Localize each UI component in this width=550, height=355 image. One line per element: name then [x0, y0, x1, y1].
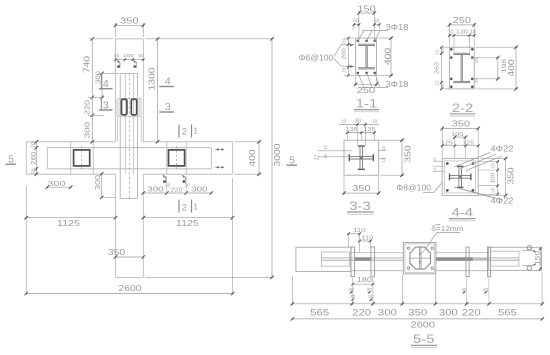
section marker 3 (right)	[159, 101, 174, 113]
section 5-5: title 5-5	[411, 334, 437, 348]
dim 350 (column width, top)	[116, 23, 144, 38]
section 4-4: title 4-4	[449, 207, 476, 220]
svg-text:125: 125	[441, 140, 453, 146]
svg-text:5-5: 5-5	[413, 334, 435, 346]
section 1-1: label phi6@100 with leader	[299, 44, 355, 68]
svg-text:350: 350	[452, 119, 471, 129]
svg-text:50: 50	[114, 53, 120, 59]
svg-text:20: 20	[165, 183, 171, 188]
svg-text:300: 300	[48, 179, 66, 188]
section marker 4 (right)	[159, 75, 174, 87]
svg-text:350: 350	[506, 167, 515, 185]
section marker 3 (left)	[99, 97, 113, 112]
svg-text:260: 260	[434, 62, 440, 74]
section 5-5: plate thickness dims 20 left	[349, 287, 374, 301]
svg-text:350: 350	[408, 307, 427, 317]
section 1-1: dim 400 right	[378, 38, 393, 75]
svg-text:110: 110	[353, 228, 365, 234]
section 5-5: web plate line	[321, 258, 519, 260]
svg-text:220: 220	[462, 307, 481, 317]
svg-text:400: 400	[507, 59, 516, 77]
section 1-1: rebar dots	[357, 40, 376, 75]
section 5-5: bolt symbols right end	[522, 246, 536, 271]
label phi8@100 with leader	[396, 182, 443, 193]
section 2-2: dims 20 right	[472, 57, 499, 83]
dim 70/260/70 (left beam end)	[31, 140, 38, 176]
section 1-1: dims 50 50	[353, 19, 381, 29]
section 1-1: outer rectangle	[356, 38, 377, 75]
plan view: column centreline (dashed)	[128, 73, 130, 198]
plan view: splice plate box	[116, 98, 142, 116]
section 5-5: beam band left segment	[351, 253, 404, 271]
dim 1125 left	[25, 186, 27, 295]
section 1-1: left dim chain 70/260/70	[342, 37, 354, 77]
section 5-5: left end inner rect	[321, 252, 349, 266]
svg-text:350: 350	[108, 248, 126, 257]
svg-text:4: 4	[165, 75, 171, 87]
section 3-3: cruciform steel core	[349, 146, 373, 169]
svg-text:150: 150	[534, 251, 541, 265]
svg-text:220: 220	[352, 307, 371, 317]
section 5-5: bottom dim chain 565/220/300/350/300/220/565	[293, 272, 542, 305]
section 1-1: label 3phi18 top with leaders	[358, 23, 409, 41]
section 3-3: outer square	[344, 140, 379, 175]
svg-text:740: 740	[83, 55, 92, 73]
section 5-5: stiffener plates right pair	[466, 247, 491, 277]
section 5-5: right end block	[489, 247, 542, 270]
plan view: steel column strip	[120, 73, 137, 198]
svg-text:2: 2	[182, 203, 187, 214]
section 4-4: right dim chain 25/100/25	[478, 160, 499, 196]
plan view: lower column strip 350	[116, 174, 144, 277]
section 5-5: centre block outer	[403, 242, 436, 273]
section 3-3: dim 350 right	[380, 140, 404, 175]
svg-text:3Φ18: 3Φ18	[386, 80, 410, 89]
svg-text:Φ6@100: Φ6@100	[299, 53, 334, 62]
section 3-3: right small dims	[379, 146, 386, 163]
svg-text:565: 565	[498, 307, 517, 317]
section marker 2-1 (above beam)	[179, 125, 198, 138]
dim 300 (column inner)	[96, 70, 119, 99]
section 5-5: right end inner rect	[491, 251, 519, 266]
section 4-4: stirrup inner square	[445, 161, 476, 193]
dim 300/220/300 (below right beam)	[142, 176, 214, 195]
section marker 5 (left)	[6, 154, 16, 166]
svg-text:300: 300	[95, 175, 102, 190]
svg-text:1125: 1125	[176, 219, 200, 228]
svg-text:100: 100	[123, 53, 134, 59]
section 4-4: outer square	[442, 158, 478, 195]
svg-text:100: 100	[490, 172, 496, 183]
section 5-5: dim 150 right	[534, 247, 541, 270]
section 5-5: centre corner bolts	[407, 247, 433, 269]
dim 1125 right	[232, 178, 234, 295]
svg-text:350: 350	[404, 145, 413, 163]
svg-text:350: 350	[120, 16, 139, 26]
dim 3000 (far right)	[145, 276, 273, 278]
section 4-4: corner rebar dots	[446, 162, 474, 192]
svg-text:25: 25	[490, 187, 496, 193]
svg-text:3: 3	[165, 101, 171, 113]
section 5-5: octagon cross	[410, 248, 430, 269]
svg-text:2600: 2600	[411, 319, 436, 329]
svg-text:20: 20	[185, 183, 191, 188]
svg-text:100: 100	[451, 132, 463, 138]
svg-text:10: 10	[470, 30, 476, 36]
section 4-4: label 4phi22 bottom with leaders	[454, 187, 514, 205]
dim 2600 (plan bottom)	[24, 284, 234, 295]
plan view: column top anchor symbols	[117, 61, 136, 69]
svg-text:220: 220	[85, 100, 92, 115]
dim 50 100 50 (top of column)	[114, 53, 144, 61]
svg-text:250: 250	[357, 85, 376, 95]
dim 300 vertical (below beam left)	[95, 172, 116, 199]
section 4-4: label 4phi22 top with leaders	[454, 145, 514, 171]
section 5-5: dims 110/110	[347, 228, 373, 252]
section 5-5: label delta=12mm with leader	[423, 224, 464, 252]
svg-text:10: 10	[341, 119, 347, 125]
section 5-5: dim 180	[351, 277, 374, 285]
svg-text:180: 180	[357, 277, 372, 284]
svg-text:20: 20	[474, 57, 479, 63]
svg-text:300: 300	[191, 184, 207, 193]
section 2-2: left dim chain 12/260/12	[434, 46, 450, 91]
svg-text:70: 70	[31, 142, 37, 148]
svg-text:130: 130	[456, 30, 468, 36]
plan view: column outline	[116, 39, 144, 142]
section 1-1: label 3phi18 bottom with leaders	[358, 73, 409, 89]
section 5-5: octagon gusset	[410, 247, 431, 269]
section 5-5: plate thickness dims 20 right	[461, 272, 489, 304]
section 5-5: left end block	[296, 247, 351, 271]
section 5-5: web hatch right	[436, 257, 488, 261]
section 5-5: centre block inner	[405, 244, 434, 272]
svg-text:260: 260	[342, 48, 348, 59]
svg-text:260: 260	[31, 151, 37, 165]
dim 350 (lower strip)	[108, 248, 145, 259]
svg-text:25: 25	[490, 163, 496, 169]
svg-text:10: 10	[323, 145, 328, 150]
svg-text:50: 50	[353, 19, 359, 25]
svg-text:70: 70	[342, 68, 348, 74]
plan view: left anchor block (bold)	[74, 146, 90, 170]
svg-text:400: 400	[248, 149, 257, 167]
svg-text:400: 400	[384, 47, 393, 65]
svg-text:4-4: 4-4	[452, 207, 474, 219]
section 4-4: dims 125/125	[441, 138, 480, 158]
svg-text:12: 12	[432, 157, 437, 162]
section 1-1: dim 250 bottom	[356, 77, 377, 86]
svg-text:250: 250	[453, 15, 472, 25]
section 2-2: dim 250 top	[449, 23, 474, 46]
svg-text:300: 300	[147, 184, 163, 193]
svg-text:300: 300	[83, 122, 92, 138]
svg-text:2600: 2600	[119, 284, 143, 293]
section 3-3: dims 10/80/10 top	[339, 119, 379, 146]
dim chain left (740/220/300)	[83, 37, 113, 144]
svg-text:2-2: 2-2	[452, 103, 474, 115]
svg-text:125: 125	[462, 140, 474, 146]
section 5-5: stiffener plates left pair	[351, 247, 375, 277]
plan view: beam outline	[26, 142, 233, 174]
svg-text:80: 80	[355, 119, 361, 125]
svg-text:10: 10	[448, 30, 454, 36]
section 3-3: dims 135/135	[346, 127, 376, 139]
section marker 4 (left)	[99, 75, 113, 90]
plan view: left stiffener band	[71, 142, 94, 174]
svg-text:110: 110	[361, 236, 373, 242]
section 2-2: rebar dots	[450, 48, 474, 88]
plan view: splice plate right (bold)	[131, 99, 136, 115]
plan view: beam inner lines	[47, 148, 211, 169]
svg-text:3000: 3000	[273, 143, 282, 167]
dim 300 left (inner to band)	[46, 185, 73, 189]
section 1-1: title 1-1	[354, 99, 379, 112]
svg-text:70: 70	[31, 168, 37, 174]
svg-text:10: 10	[323, 154, 328, 159]
section 4-4: cruciform steel core	[450, 166, 471, 187]
svg-text:70: 70	[342, 39, 348, 45]
svg-text:10: 10	[372, 119, 378, 125]
svg-text:2: 2	[182, 127, 187, 138]
section 2-2: dims 10/130/10	[448, 30, 476, 52]
svg-text:1: 1	[193, 126, 198, 136]
svg-text:20: 20	[474, 78, 479, 84]
svg-text:220: 220	[171, 188, 183, 194]
plan view: right anchor block (bold)	[169, 146, 185, 170]
svg-text:12: 12	[432, 167, 437, 172]
section 2-2: title 2-2	[450, 103, 475, 116]
section 1-1: steel I-beam	[359, 44, 374, 70]
svg-text:1: 1	[193, 202, 198, 212]
section 4-4: left dims 12/12	[432, 157, 443, 172]
section 1-1: dim 150 top	[359, 11, 374, 42]
dim 1300 (right of column)	[145, 38, 273, 40]
section 4-4: dim 350 right	[480, 158, 508, 195]
svg-text:1300: 1300	[148, 67, 157, 91]
svg-text:Φ8@100: Φ8@100	[396, 183, 431, 192]
dim 400 (right beam)	[235, 142, 262, 174]
plan view: column neck edges	[118, 116, 142, 142]
svg-text:300: 300	[439, 307, 458, 317]
svg-text:50: 50	[138, 53, 144, 59]
svg-text:300: 300	[378, 307, 397, 317]
plan view: splice plate left (bold)	[122, 99, 127, 115]
section 5-5: web hatch left	[355, 257, 371, 261]
svg-text:50: 50	[374, 19, 380, 25]
section 5-5: dim 2600	[291, 317, 545, 321]
svg-text:135: 135	[346, 127, 358, 133]
svg-text:10: 10	[381, 157, 386, 162]
section 4-4: dim 100	[451, 132, 467, 139]
section 2-2: dim 196 right	[496, 56, 508, 81]
section 2-2: steel I-beam	[454, 53, 470, 84]
plan view: beam right anchor symbols	[215, 148, 224, 168]
svg-text:150: 150	[357, 4, 376, 14]
section 3-3: dim 350 bottom	[344, 177, 379, 195]
svg-text:3Φ18: 3Φ18	[386, 23, 410, 32]
svg-text:δ=12mm: δ=12mm	[431, 224, 463, 233]
section 3-3: title 3-3	[347, 201, 374, 214]
svg-text:135: 135	[364, 127, 376, 133]
svg-text:3-3: 3-3	[349, 201, 371, 213]
section marker 2-1 (below beam)	[179, 200, 198, 214]
svg-text:1-1: 1-1	[356, 99, 378, 111]
section 3-3: left small dims	[315, 145, 353, 161]
section 4-4: dim 350 top	[442, 127, 478, 157]
svg-text:4Φ22: 4Φ22	[491, 145, 515, 154]
svg-text:1125: 1125	[57, 219, 81, 228]
plan view: right stiffener band	[167, 142, 186, 174]
section 2-2: outer rectangle	[449, 47, 474, 89]
section 2-2: dim 400 right	[476, 47, 519, 89]
svg-text:50: 50	[440, 48, 445, 53]
section marker 5 (right)	[287, 155, 298, 167]
section 5-5: beam band right segment	[436, 253, 489, 271]
svg-text:50: 50	[440, 83, 445, 88]
svg-text:565: 565	[310, 307, 329, 317]
svg-text:27: 27	[315, 155, 321, 161]
svg-text:10: 10	[381, 146, 386, 151]
svg-text:350: 350	[352, 183, 371, 193]
